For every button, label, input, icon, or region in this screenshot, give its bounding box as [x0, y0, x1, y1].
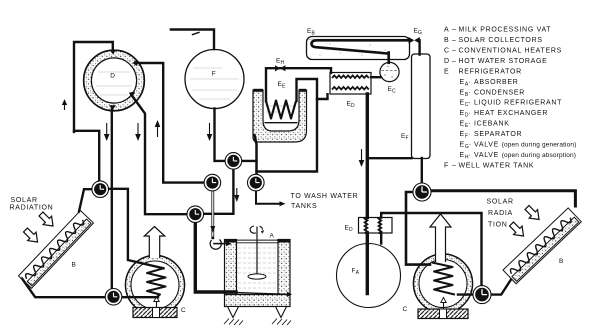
svg-text:F: F — [444, 162, 449, 169]
legend — [444, 27, 576, 170]
pump P4 — [204, 174, 221, 191]
flow arrow on vat feed pipe — [210, 226, 215, 233]
wire P3 to riser node — [236, 160, 257, 162]
svg-text:B: B — [72, 262, 77, 269]
flow arrow up beside left loop — [63, 101, 67, 111]
conventional heater C2 (right) — [413, 254, 472, 313]
wire icebank drain riser to pump P5 — [255, 135, 257, 183]
svg-text:D: D — [110, 73, 115, 80]
svg-text:A: A — [444, 27, 449, 34]
flow arrow down beside refrigerant line — [360, 149, 364, 166]
svg-text:C: C — [181, 307, 186, 314]
condenser E_B — [307, 37, 410, 60]
separator E_F — [412, 54, 431, 159]
svg-text:SOLAR COLLECTORS: SOLAR COLLECTORS — [459, 37, 543, 44]
svg-text:WELL WATER TANK: WELL WATER TANK — [459, 162, 535, 169]
well water tank F — [185, 50, 244, 109]
svg-text:CONVENTIONAL HEATERS: CONVENTIONAL HEATERS — [459, 48, 562, 55]
heater C1 steam arrow — [144, 227, 164, 259]
svg-text:C: C — [444, 48, 450, 55]
node D bottom port — [109, 105, 116, 110]
wire pump P8 to collector B2 bottom — [484, 280, 511, 295]
svg-text:SOLAR: SOLAR — [487, 199, 514, 206]
icebank coil zigzag — [266, 101, 296, 119]
wire separator left to main riser — [367, 157, 411, 159]
svg-text:B: B — [444, 37, 449, 44]
wire P1 to collector B1 top — [79, 189, 98, 211]
liquid refrigerant E_C — [380, 62, 399, 81]
svg-text:TANKS: TANKS — [291, 203, 317, 210]
wire separator bottom to pump P7 — [421, 158, 423, 190]
valve E_H — [275, 65, 285, 71]
wire condenser hairpin tube — [312, 40, 412, 53]
pump P6 — [187, 206, 204, 223]
heater C2 base — [418, 309, 468, 319]
absorber F_A — [337, 244, 401, 308]
wire collector B1 bottom to pump P2 — [22, 279, 158, 298]
flow arrow down beside D bottom pipe — [105, 123, 109, 140]
heater C1 coil — [147, 268, 166, 297]
wire tick on well inlet — [193, 32, 200, 34]
heater C2 flow arrow — [443, 302, 445, 309]
heat exchanger E_D lower — [359, 217, 393, 234]
svg-text:TION: TION — [488, 221, 508, 228]
wire E_D lower coil2 to absorber — [380, 233, 382, 244]
wire E_D right to E_C — [371, 76, 381, 78]
pump P3 — [225, 153, 242, 170]
wire E_H line from icebank to E_D top — [266, 68, 331, 101]
svg-text:–: – — [452, 48, 457, 55]
hot water storage D — [84, 50, 145, 111]
heater C1 flow arrow — [156, 301, 158, 308]
wire absorber dip tube — [366, 233, 369, 294]
svg-text:CONDENSER: CONDENSER — [474, 89, 525, 96]
wire P1 branch down to heater C1 coil — [106, 189, 164, 268]
wire D diagonal port to pump P6 — [132, 95, 194, 214]
conventional heater C1 (left) — [126, 256, 185, 315]
svg-text:E: E — [444, 68, 449, 75]
wire E_D lower-left jog — [317, 94, 328, 99]
vat inlet fitting — [210, 240, 231, 250]
svg-text:ICEBANK: ICEBANK — [474, 121, 510, 128]
milk processing vat A — [224, 226, 292, 325]
wire main refrigerant line E_D upper to E_D lower — [366, 94, 369, 218]
solar collector B2 (right) — [503, 208, 581, 284]
pump P7 — [413, 183, 431, 201]
heater C1 base — [133, 308, 177, 318]
icebank E_E vessel — [253, 89, 307, 142]
wire riser branch to E_D left port and icebank right pipe — [257, 79, 318, 172]
svg-text:–: – — [452, 27, 457, 34]
heater C2 steam arrow — [430, 214, 451, 262]
wire P7 right arm to collector B2 top — [424, 191, 575, 206]
svg-text:–: – — [452, 37, 457, 44]
flow arrow down beside D diag pipe — [136, 123, 140, 140]
wire P4 down to vat fitting — [211, 188, 214, 238]
wire left riser to pump P1 — [74, 131, 99, 188]
wire D bottom to pump P2 — [111, 110, 113, 297]
svg-text:SOLAR: SOLAR — [11, 197, 38, 204]
wire well inlet to F top — [171, 30, 214, 50]
wire P7 left arm down to heater C2 — [406, 192, 430, 265]
wash water arrowhead — [280, 201, 286, 206]
svg-text:SEPARATOR: SEPARATOR — [474, 131, 522, 138]
vat drain spout — [287, 292, 292, 297]
svg-text:ABSORBER: ABSORBER — [474, 79, 519, 86]
svg-text:B: B — [559, 258, 564, 265]
pump P2 — [105, 289, 122, 306]
svg-text:LIQUID REFRIGERANT: LIQUID REFRIGERANT — [474, 100, 562, 107]
wire vat drain thick — [195, 216, 236, 292]
icebank coil baseline — [265, 122, 298, 124]
svg-text:HOT WATER STORAGE: HOT WATER STORAGE — [459, 58, 548, 65]
svg-text:RADIATION: RADIATION — [10, 204, 54, 211]
pump P8 — [473, 286, 491, 304]
solar radiation arrows right — [510, 206, 540, 237]
wire pump P8 riser to E_D lower coil2 — [381, 213, 481, 292]
vat legs — [228, 307, 239, 318]
svg-text:TO WASH WATER: TO WASH WATER — [291, 193, 359, 200]
wire P5 wash water branch — [256, 184, 280, 204]
svg-text:F: F — [212, 71, 216, 78]
wire fitting into vat — [214, 243, 226, 245]
vat stirrer — [256, 227, 258, 277]
svg-text:–: – — [452, 58, 457, 65]
pump P5 — [248, 174, 265, 191]
wire F bottom to pump P3 — [215, 109, 232, 161]
heater C2 coil — [432, 263, 455, 295]
svg-text:A: A — [270, 233, 275, 240]
valve E_G — [409, 37, 420, 44]
wire heater C2 coil to pump P8 — [458, 293, 480, 295]
svg-text:RADIA: RADIA — [488, 210, 513, 217]
svg-text:D: D — [444, 58, 450, 65]
svg-text:MILK PROCESSING VAT: MILK PROCESSING VAT — [459, 27, 552, 34]
svg-text:HEAT EXCHANGER: HEAT EXCHANGER — [474, 110, 548, 117]
flow arrow down beside P3 downpipe — [235, 188, 239, 201]
solar collector B1 (left) — [18, 211, 93, 289]
svg-text:REFRIGERATOR: REFRIGERATOR — [459, 68, 522, 75]
node D top port — [110, 50, 116, 55]
node D right port — [133, 60, 138, 67]
flow arrow up beside D right pipe — [156, 122, 160, 138]
wire P3 down to P6 — [197, 163, 233, 214]
pump P1 — [92, 181, 109, 198]
svg-text:–: – — [452, 162, 457, 169]
solar radiation arrows left — [24, 212, 54, 242]
svg-text:C: C — [403, 306, 408, 313]
heat exchanger E_D upper — [330, 73, 371, 95]
wire E_G valve to separator top — [417, 40, 420, 54]
node D diagonal port — [129, 92, 135, 99]
svg-text:VALVE (open during generation): VALVE (open during generation) — [474, 142, 576, 149]
wire condenser outlet to E_C top — [387, 53, 390, 63]
wire vat drain inner — [236, 293, 287, 295]
wire D right port to pump P4 — [138, 63, 211, 183]
flow arrow down beside F pipe — [208, 123, 212, 140]
svg-text:VALVE (open during absorption): VALVE (open during absorption) — [474, 152, 576, 159]
wire top-left loop to D top — [74, 42, 113, 132]
